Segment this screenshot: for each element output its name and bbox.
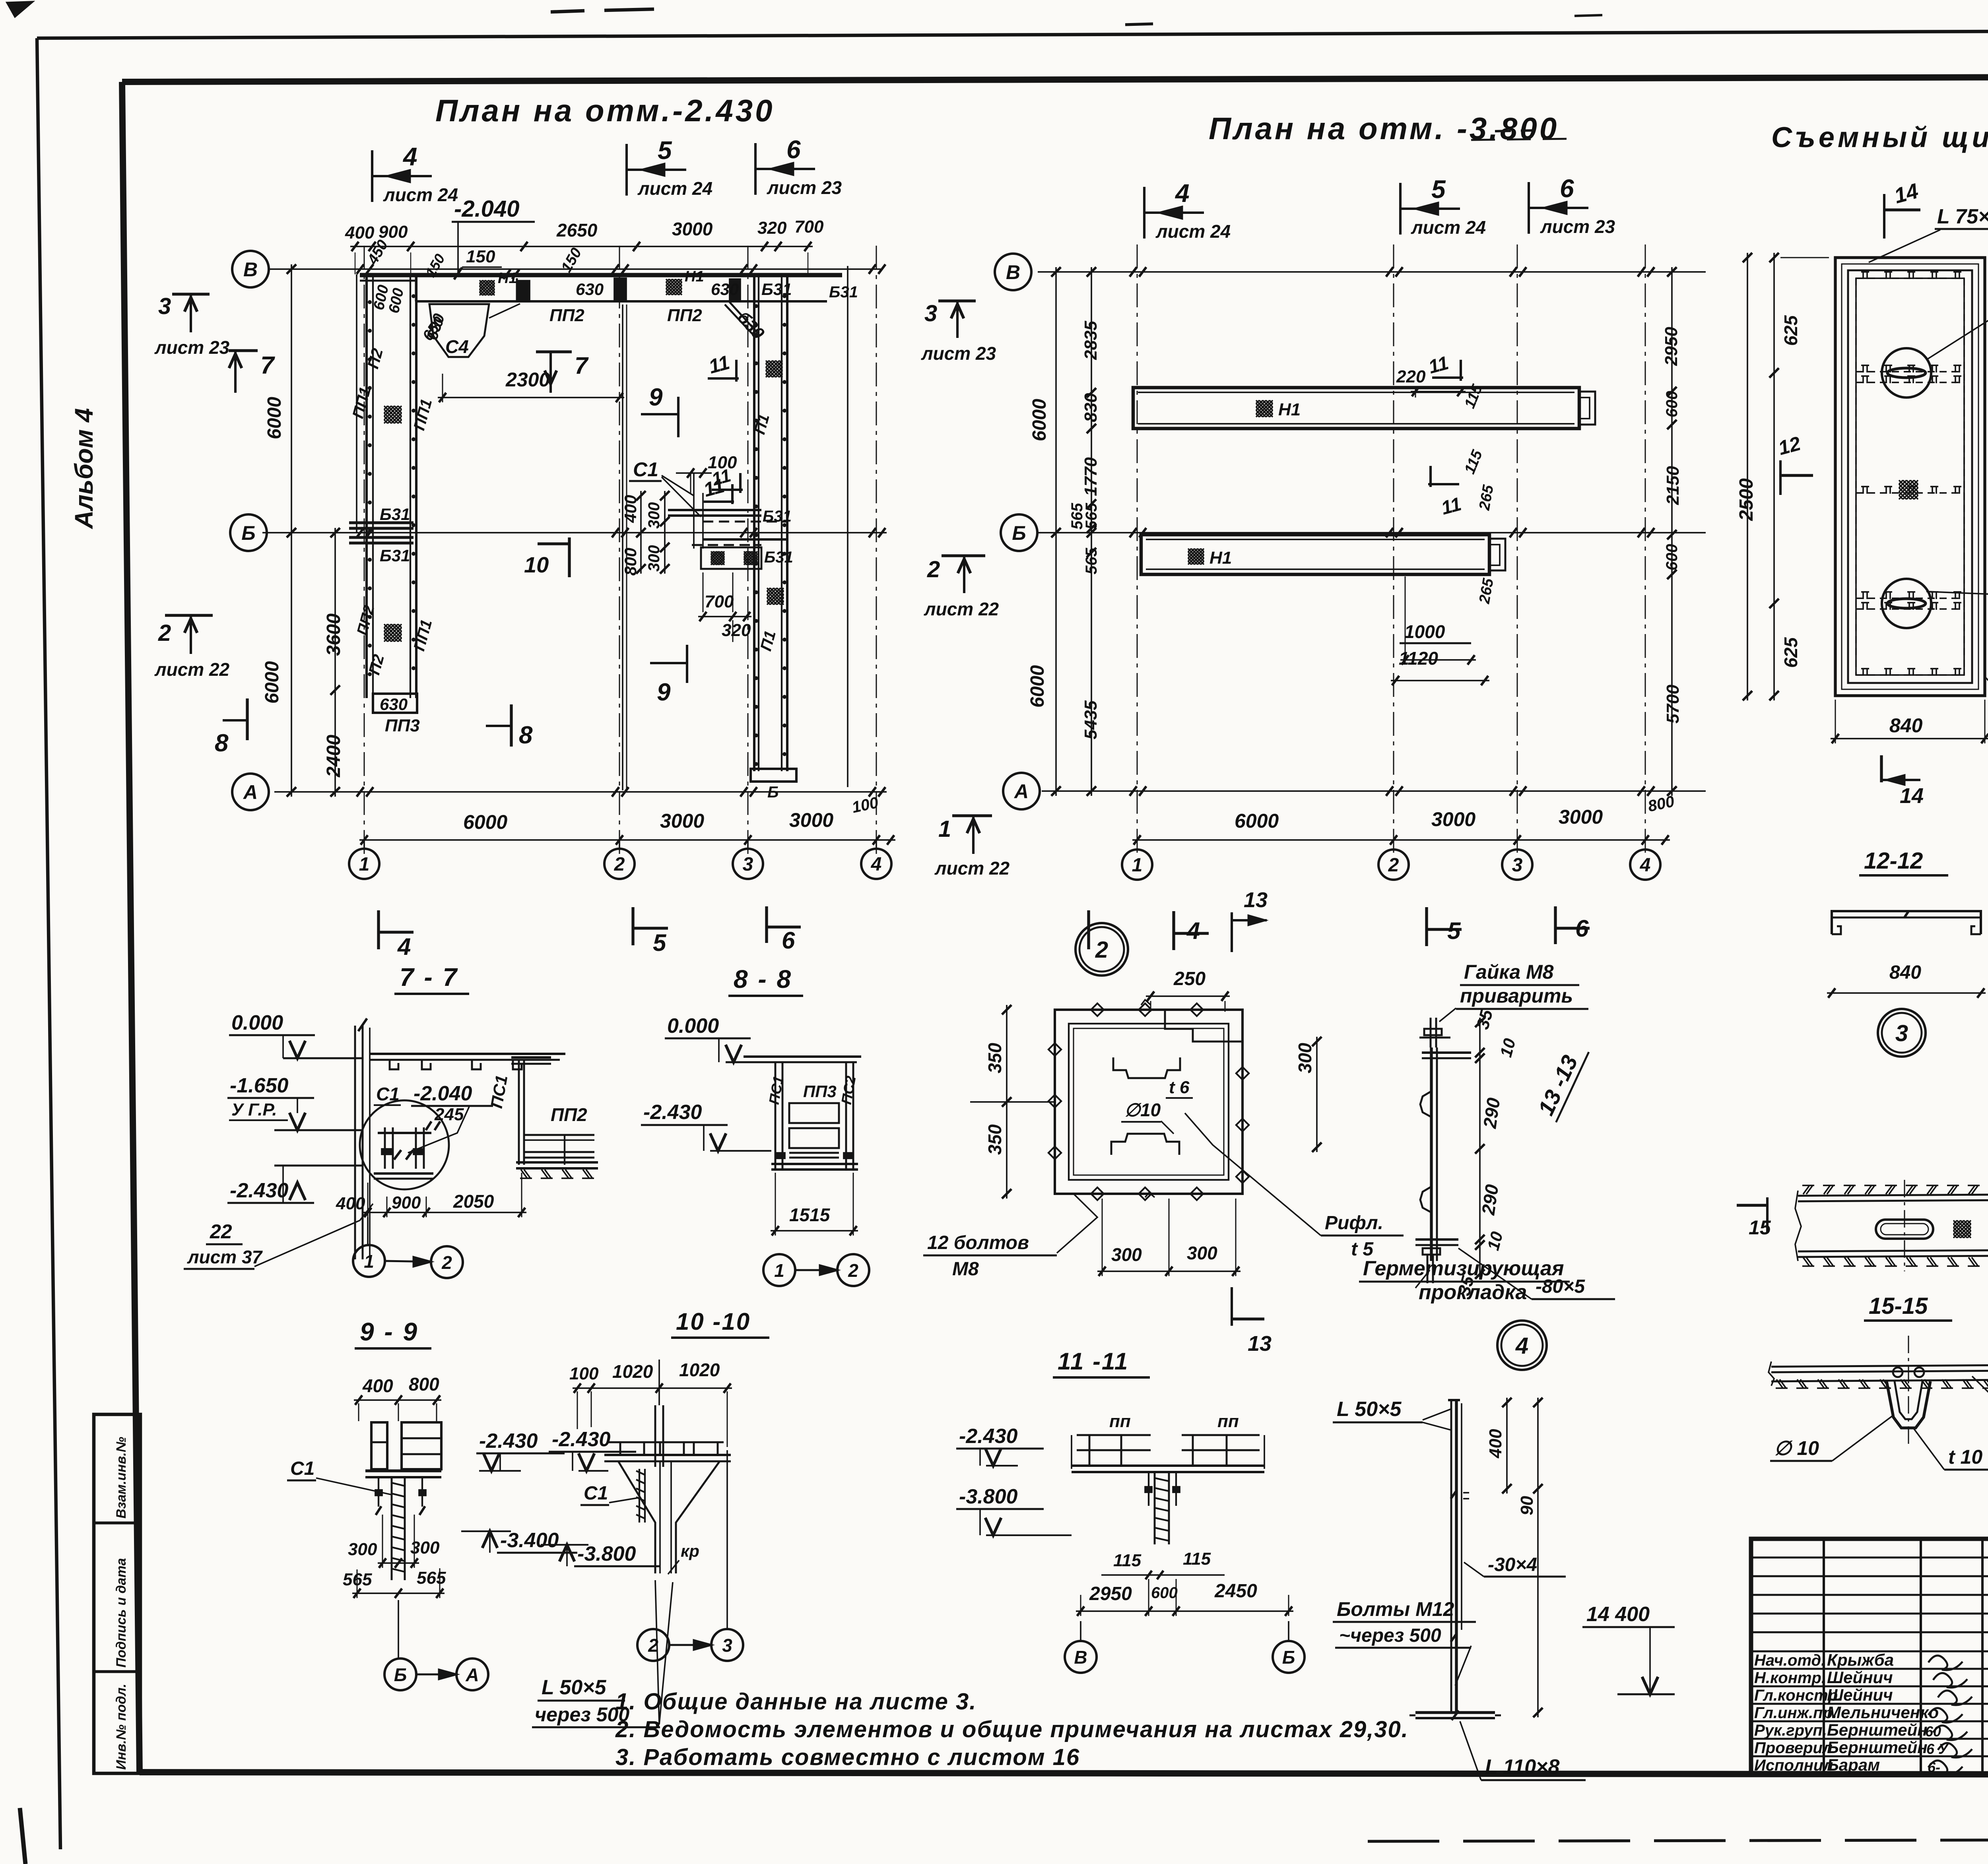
svg-text:1: 1 (1132, 855, 1143, 876)
scan dash top middle (1125, 24, 1153, 25)
svg-text:4: 4 (1515, 1333, 1528, 1359)
svg-text:2400: 2400 (323, 735, 344, 778)
svg-text:-2.040: -2.040 (454, 196, 519, 222)
plan1 top wall lower edge (416, 300, 827, 303)
svg-text:L 50×5: L 50×5 (542, 1676, 606, 1699)
svg-text:6000: 6000 (1029, 399, 1050, 441)
panel detail circle 2 (1882, 579, 1931, 628)
svg-text:-3.400: -3.400 (500, 1529, 559, 1552)
outer border top (37, 29, 1988, 38)
sec11 shaft (1154, 1472, 1156, 1544)
svg-text:3000: 3000 (1431, 808, 1475, 830)
svg-text:565: 565 (1083, 548, 1100, 574)
plate2 break marks (1141, 1000, 1151, 1005)
svg-text:2: 2 (648, 1635, 658, 1656)
panel stud row mid (1856, 492, 1964, 494)
svg-text:2835: 2835 (1081, 321, 1101, 360)
plan2 mark 11 lower (1428, 483, 1459, 485)
plan1 col stems (363, 840, 365, 849)
svg-text:1770: 1770 (1081, 457, 1101, 496)
col4 stud marks (1451, 1491, 1456, 1499)
svg-text:565: 565 (417, 1568, 446, 1588)
svg-text:6-: 6- (1928, 1759, 1940, 1775)
svg-text:А: А (1013, 780, 1029, 803)
sec9 shaft (391, 1477, 393, 1580)
svg-text:320: 320 (757, 218, 787, 238)
plan1 col bubble 3 (733, 849, 763, 879)
plan2 beam2 H1 (1188, 549, 1191, 552)
plan1 left wall blob lower (384, 624, 388, 628)
sec7 bubbles (353, 1245, 385, 1277)
svg-text:630: 630 (380, 695, 408, 714)
sec10 spring (636, 1471, 645, 1475)
svg-text:14 400: 14 400 (1586, 1603, 1650, 1626)
plan1 top dim line (350, 246, 813, 247)
scan mark bottom-left (20, 1808, 25, 1864)
sec9 side bolts (378, 1477, 379, 1507)
plan2 col bubble 2 (1378, 850, 1409, 880)
svg-text:ПП2: ПП2 (551, 1104, 587, 1125)
plan1 right wall blob up (766, 361, 769, 364)
sec9 columns (371, 1422, 387, 1469)
panel stud row top (1856, 277, 1964, 279)
plan1 axis line 4 (876, 246, 877, 855)
hook V outer (1887, 1381, 1930, 1428)
plan1 mark 10 (568, 537, 571, 577)
panel mark 14 top (1883, 194, 1885, 239)
plan1 mark 11 lower (704, 500, 734, 503)
plan1 left dim line inner (334, 528, 336, 797)
svg-text:пп: пп (1109, 1412, 1131, 1431)
panel dashed border (1842, 264, 1978, 689)
plan1 col bubble 2 (604, 849, 635, 879)
sec8 bottom dim (771, 1230, 858, 1232)
sec10 bubbles (637, 1629, 669, 1661)
svg-text:625: 625 (1780, 315, 1801, 346)
svg-text:2300: 2300 (505, 369, 550, 391)
detail3 band (1798, 1195, 1988, 1196)
svg-text:t 6: t 6 (1169, 1078, 1190, 1097)
svg-text:6: 6 (1575, 915, 1589, 942)
sec7 column PC1 (518, 1060, 520, 1165)
svg-text:800: 800 (409, 1374, 439, 1395)
scan dash top area (551, 11, 584, 12)
svg-text:4: 4 (1175, 179, 1190, 208)
svg-text:6 У: 6 У (1926, 1741, 1949, 1757)
svg-text:4: 4 (402, 142, 417, 171)
detail bubble 3 (1878, 1009, 1926, 1057)
svg-text:Б: Б (1282, 1647, 1295, 1668)
svg-text:Б31: Б31 (380, 546, 410, 565)
plan1 grid line В (268, 268, 881, 270)
svg-text:1: 1 (359, 854, 370, 875)
svg-text:6: 6 (782, 927, 795, 954)
outer border bottom dashed (1368, 1839, 1988, 1841)
svg-text:300: 300 (645, 545, 663, 572)
plan1 col bubble 4 (861, 849, 891, 879)
plan1 left wall strip a (365, 274, 368, 698)
plan1 mark 6 bottom (765, 906, 768, 943)
svg-text:Крыжба: Крыжба (1827, 1651, 1894, 1669)
plan2 left dim inner (1091, 267, 1092, 796)
detail3 blob (1953, 1220, 1957, 1224)
svg-text:2: 2 (1095, 937, 1108, 963)
sec13 bolt top (1430, 1018, 1432, 1047)
svg-text:6: 6 (1560, 174, 1574, 203)
svg-text:9 - 9: 9 - 9 (360, 1317, 419, 1346)
svg-text:220: 220 (1396, 367, 1426, 386)
plan1 mark 6 top (754, 143, 757, 195)
svg-text:А: А (465, 1664, 479, 1685)
svg-text:6000: 6000 (262, 661, 283, 704)
svg-text:5: 5 (658, 136, 672, 165)
svg-text:4: 4 (397, 933, 411, 960)
svg-text:С4: С4 (445, 336, 469, 357)
plate2 corner notch (1165, 1010, 1242, 1042)
stamp sig col lines (1823, 1539, 1825, 1774)
sec7 slab anchors (390, 1060, 398, 1069)
plan2 mark 6 bottom (1554, 906, 1557, 944)
svg-text:900: 900 (379, 222, 408, 242)
svg-text:6: 6 (786, 135, 801, 164)
svg-text:565: 565 (1083, 503, 1100, 530)
plan1 right wall strip b (781, 274, 782, 771)
svg-text:Гайка М8: Гайка М8 (1464, 961, 1554, 983)
svg-text:лист 22: лист 22 (934, 858, 1010, 879)
hook band hatch (1776, 1379, 1783, 1388)
svg-text:300: 300 (348, 1540, 377, 1559)
svg-text:8: 8 (519, 722, 533, 749)
svg-text:3. Работать совместно с лис: 3. Работать совместно с листом 16 (615, 1744, 1080, 1770)
svg-text:2150: 2150 (1663, 466, 1683, 505)
plan1 axis2 wall lines (622, 305, 623, 790)
svg-text:290: 290 (1477, 1183, 1502, 1217)
svg-text:-1.650: -1.650 (230, 1074, 289, 1097)
svg-text:Герметизирующая: Герметизирующая (1363, 1257, 1564, 1280)
svg-text:С1: С1 (633, 458, 658, 481)
plan1 mark 8 right (510, 704, 513, 747)
svg-text:План на отм.-2.430: План на отм.-2.430 (435, 93, 775, 128)
svg-text:7 - 7: 7 - 7 (400, 963, 458, 991)
svg-text:-2.040: -2.040 (414, 1082, 472, 1105)
plan2 mark 3 list23 (938, 299, 976, 302)
hook break marks (1769, 1362, 1774, 1386)
svg-text:Взам.инв.№: Взам.инв.№ (114, 1437, 129, 1519)
plan2 grid line Б (1038, 532, 1706, 533)
svg-text:320: 320 (722, 621, 751, 640)
svg-text:600: 600 (1663, 544, 1681, 570)
svg-text:3: 3 (1895, 1020, 1908, 1046)
svg-text:пп: пп (1217, 1412, 1239, 1431)
panel stud row 1b (1856, 382, 1964, 383)
svg-text:60: 60 (1925, 1723, 1941, 1740)
detail bubble 4 (1497, 1321, 1547, 1370)
plan2 left dim outer (1055, 267, 1057, 796)
svg-text:Рифл.: Рифл. (1325, 1212, 1383, 1234)
svg-text:300: 300 (1111, 1244, 1142, 1265)
svg-text:Мельниченко: Мельниченко (1827, 1703, 1939, 1722)
panel stud col right (1963, 278, 1965, 675)
svg-text:600: 600 (1663, 391, 1681, 417)
svg-text:2450: 2450 (1214, 1581, 1257, 1602)
svg-text:5: 5 (1431, 175, 1446, 204)
main frame bottom (140, 1772, 1988, 1775)
sec11 bubbles (1065, 1641, 1097, 1673)
svg-text:0.000: 0.000 (231, 1011, 283, 1034)
sec11 dim bottom (1076, 1610, 1293, 1612)
plan1 mark 5 top (625, 144, 628, 196)
svg-text:Б31: Б31 (764, 549, 793, 566)
sec13 bumps (1420, 1091, 1431, 1117)
svg-text:Шейнич: Шейнич (1827, 1668, 1893, 1687)
plan1 axis line 3 (747, 246, 749, 855)
plan2 beam1 end bracket (1579, 392, 1595, 425)
svg-text:1. Общие данные на листе 3: 1. Общие данные на листе 3. (615, 1689, 977, 1715)
plate2 mark 13 lower (1231, 1287, 1233, 1326)
svg-text:Н.контр.: Н.контр. (1754, 1669, 1826, 1687)
plan2 grid line В (1038, 271, 1706, 273)
svg-text:В: В (1074, 1647, 1087, 1668)
plan2 beam1 outline (1133, 388, 1579, 429)
stamp sig row lines (1751, 1557, 1988, 1559)
svg-text:350: 350 (984, 1124, 1005, 1155)
svg-text:ПП3: ПП3 (803, 1082, 837, 1101)
sec7 anchor bolts (384, 1127, 386, 1169)
svg-text:лист 23: лист 23 (921, 343, 996, 364)
plan1 top wall corner diag (725, 305, 754, 336)
plan2 bottom dim line (1132, 839, 1670, 841)
plate2 dim hlines (1007, 1009, 1055, 1010)
plan1 C1 bars lower (703, 538, 787, 541)
plan1 C1 vline (693, 473, 695, 549)
plan2 col bubble 1 (1122, 850, 1152, 880)
stamp outer box (1751, 1539, 1988, 1774)
svg-text:t 10: t 10 (1948, 1446, 1982, 1468)
svg-text:5: 5 (653, 929, 667, 956)
svg-text:830: 830 (1081, 393, 1101, 422)
sec8 walls (775, 1062, 777, 1169)
svg-text:115: 115 (1183, 1549, 1211, 1569)
plan2 mark 1 bottom (1087, 910, 1090, 949)
plan2 title dashes (1495, 130, 1535, 131)
panel stud row 2b (1856, 608, 1964, 610)
svg-text:840: 840 (1889, 714, 1923, 737)
svg-text:Б: Б (241, 522, 255, 544)
hook center line (1908, 1336, 1909, 1447)
panel blob (1899, 480, 1903, 484)
plan2 mark 11 upper (1432, 376, 1463, 379)
plan1 C1 mark 11 (712, 489, 743, 491)
svg-text:250: 250 (1173, 968, 1206, 989)
sec13 top bracket (1422, 1051, 1471, 1054)
plan2 beam1 H1 (1256, 400, 1259, 403)
svg-text:лист 22: лист 22 (924, 599, 999, 619)
sec8 bubbles (763, 1254, 795, 1286)
svg-text:2: 2 (441, 1252, 452, 1273)
svg-text:13: 13 (1244, 888, 1268, 912)
sec7 bolt marks (394, 1150, 401, 1160)
plan1 top wall divider c (614, 278, 626, 301)
svg-text:лист 37: лист 37 (187, 1247, 263, 1267)
plan1 axis line 2 (619, 246, 620, 855)
svg-text:630: 630 (711, 280, 739, 299)
sec9 bubbles (384, 1658, 416, 1690)
svg-text:М8: М8 (952, 1259, 979, 1280)
svg-text:3000: 3000 (1559, 806, 1603, 828)
panel leader 3 list a (1926, 294, 1988, 360)
svg-text:-3.800: -3.800 (959, 1485, 1018, 1508)
sec9 shaft rungs (392, 1483, 405, 1486)
svg-text:С1: С1 (290, 1458, 315, 1479)
svg-text:1000: 1000 (1404, 621, 1445, 642)
sec7 base hatch (521, 1170, 527, 1178)
stamp signatures (1928, 1656, 1963, 1670)
detail3 hatch bottom (1803, 1257, 1809, 1266)
plan2 mark 1 list22 (952, 814, 992, 817)
panel detail circle 1 (1882, 348, 1931, 398)
panel inner dashed (1856, 278, 1964, 675)
plan1 mark 8 left (246, 698, 248, 740)
plan1 mark 5 bottom (631, 907, 634, 945)
sec13 plate (1430, 1047, 1433, 1261)
svg-text:12 болтов: 12 болтов (927, 1232, 1029, 1253)
plan2 mark 6 top (1528, 182, 1530, 234)
svg-text:~через 500: ~через 500 (1339, 1625, 1441, 1646)
plan1 left wall B31 joint (349, 521, 414, 524)
svg-text:6000: 6000 (463, 811, 507, 833)
plan1 top wall divider a (415, 275, 417, 301)
svg-text:10 -10: 10 -10 (676, 1308, 751, 1335)
panel stud row 2 (1856, 597, 1964, 599)
svg-text:13: 13 (1248, 1332, 1272, 1356)
plan2 row bubble В (995, 254, 1031, 290)
sec9 base plate (365, 1469, 441, 1472)
svg-text:лист 24: лист 24 (383, 184, 458, 205)
panel mark 14 bottom (1880, 755, 1883, 782)
plan1 row bubble А (232, 774, 269, 810)
svg-text:5: 5 (1447, 917, 1461, 944)
svg-text:115: 115 (1113, 1551, 1142, 1570)
svg-text:-2.430: -2.430 (230, 1179, 289, 1202)
svg-text:6000: 6000 (1235, 810, 1279, 832)
plan2 axis line 3 (1517, 244, 1518, 855)
svg-text:-30×4: -30×4 (1488, 1554, 1537, 1575)
sec13 bottom bracket (1415, 1238, 1458, 1241)
svg-text:Шейнич: Шейнич (1827, 1686, 1893, 1704)
margin box divider 2 (94, 1670, 140, 1673)
svg-text:лист 24: лист 24 (1411, 217, 1486, 238)
plan1 row bubble Б (230, 514, 267, 551)
sec7 anchor base (374, 1172, 433, 1175)
svg-text:2500: 2500 (1736, 478, 1757, 521)
plan1 left dim line outer (291, 264, 292, 797)
svg-text:лист 22: лист 22 (154, 659, 230, 680)
svg-text:11 -11: 11 -11 (1058, 1348, 1129, 1375)
svg-text:-2.430: -2.430 (643, 1101, 702, 1124)
margin box divider 1 (94, 1521, 140, 1524)
svg-text:290: 290 (1479, 1096, 1504, 1130)
plan1 bottom dim line (359, 839, 895, 841)
panel leader 3 list b (1926, 592, 1988, 595)
svg-text:Барам: Барам (1827, 1755, 1880, 1774)
svg-text:0.000: 0.000 (667, 1014, 719, 1038)
svg-text:Бернштейн: Бернштейн (1827, 1738, 1928, 1757)
svg-text:План на отм. -3.800: План на отм. -3.800 (1209, 111, 1559, 146)
svg-text:кр: кр (681, 1542, 699, 1560)
svg-text:3: 3 (743, 854, 753, 875)
plan2 mark 4 bottom (1172, 911, 1175, 950)
main frame left (122, 82, 140, 1772)
svg-text:400: 400 (1486, 1429, 1505, 1459)
sec7 top slab (370, 1053, 565, 1055)
svg-text:1020: 1020 (679, 1360, 720, 1380)
col4 top cap (1448, 1399, 1460, 1401)
plan2 axis line 1 (1137, 244, 1138, 855)
svg-text:9: 9 (657, 679, 671, 706)
sec7 slab stack (525, 1134, 594, 1136)
plan1 right wall blob low (767, 588, 770, 591)
svg-text:400: 400 (336, 1194, 365, 1213)
svg-text:400: 400 (345, 223, 375, 242)
svg-text:∅ 10: ∅ 10 (1774, 1437, 1819, 1459)
svg-text:1120: 1120 (1399, 648, 1438, 669)
plan1 mark 7 inner (536, 350, 572, 353)
plan1 C1 box (701, 547, 761, 569)
sec10 funnel (618, 1461, 655, 1573)
svg-text:3000: 3000 (789, 809, 833, 831)
svg-text:350: 350 (984, 1043, 1005, 1073)
svg-text:10: 10 (524, 552, 549, 577)
plan1 C1 bars upper (668, 509, 761, 511)
svg-text:630: 630 (576, 280, 604, 299)
sec7 base line (516, 1161, 598, 1164)
plan2 beam2 end bracket (1489, 539, 1505, 570)
svg-text:-2.430: -2.430 (552, 1428, 611, 1451)
svg-text:Бернштейн: Бернштейн (1827, 1720, 1928, 1739)
plan2 row bubble А (1003, 773, 1040, 809)
plan1 right wall strip a (753, 274, 755, 771)
svg-text:3: 3 (924, 301, 937, 326)
plate2 outer square (1055, 1010, 1242, 1194)
svg-text:А: А (243, 781, 258, 803)
plan2 beam2 outline (1141, 535, 1489, 574)
svg-text:∅10: ∅10 (1124, 1100, 1161, 1120)
plan1 right wall outer line (847, 266, 848, 787)
svg-text:-2.430: -2.430 (479, 1430, 538, 1453)
svg-text:5700: 5700 (1663, 685, 1683, 723)
hook band (1771, 1365, 1988, 1367)
hook circles (1893, 1367, 1903, 1377)
plan2 mark 5 top (1399, 183, 1402, 235)
svg-text:лист 23: лист 23 (1540, 216, 1615, 237)
svg-text:4: 4 (871, 854, 882, 875)
plan1 mark 2 list22 (165, 614, 213, 617)
col4 column lines (1450, 1400, 1452, 1713)
outer border left (37, 38, 60, 1849)
plan1 funnel C4 (429, 304, 489, 357)
plan1 C1 dim vlines (640, 491, 642, 574)
hook V inner (1895, 1381, 1922, 1419)
svg-text:L 50×5: L 50×5 (1337, 1398, 1402, 1421)
plan1 left wall strip b (410, 274, 411, 698)
svg-text:Б: Б (767, 784, 779, 801)
detail3 break left (1795, 1191, 1801, 1261)
panel mark 12 left (1779, 460, 1782, 495)
svg-text:Инв.№ подл.: Инв.№ подл. (114, 1684, 129, 1770)
sec13 dim chain (1479, 1018, 1481, 1279)
plan2 grid line А (1042, 790, 1706, 792)
plan1 top wall divider b (516, 278, 518, 301)
